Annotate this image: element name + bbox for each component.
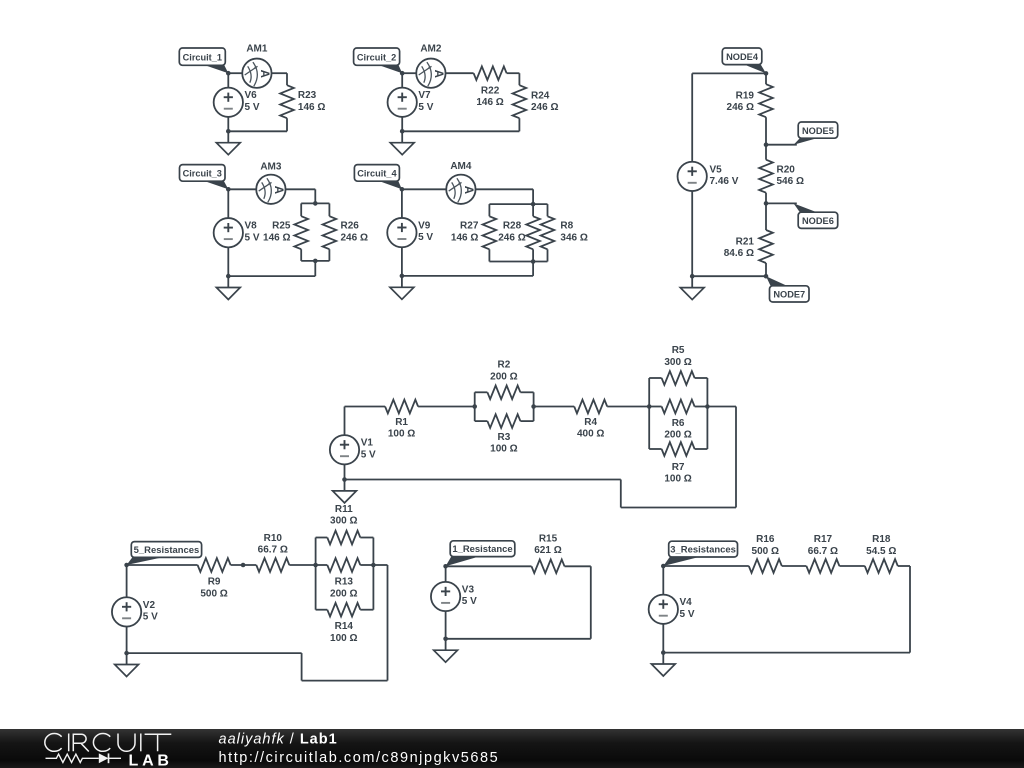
node NODE4 [764, 71, 769, 76]
wire node to R9 [127, 564, 198, 566]
svg-text:621 Ω: 621 Ω [534, 545, 561, 556]
node Circuit_1 [226, 71, 231, 76]
svg-text:346 Ω: 346 Ω [560, 232, 587, 243]
svg-text:V4: V4 [680, 597, 693, 608]
junction V4 bottom [661, 650, 666, 655]
wire R9 to R10 [231, 564, 257, 566]
wire V8 - down [227, 247, 229, 276]
svg-text:500 Ω: 500 Ω [752, 546, 779, 557]
svg-text:R18: R18 [872, 534, 891, 545]
svg-text:3_Resistances: 3_Resistances [670, 544, 736, 555]
wire pair right side [533, 392, 535, 421]
svg-text:Circuit_2: Circuit_2 [357, 52, 396, 62]
svg-text:R24: R24 [531, 90, 550, 101]
node Circuit_2 [400, 71, 405, 76]
junction bottom [226, 129, 231, 134]
resistor R19 [759, 84, 773, 117]
wire node Circuit_4 to AM4 [402, 188, 446, 190]
svg-text:5 V: 5 V [418, 232, 433, 243]
resistor R27 [483, 216, 497, 249]
wire to R28 [532, 204, 534, 216]
wire R26 bottom [328, 249, 330, 261]
svg-text:R9: R9 [208, 577, 221, 588]
resistor R21 [759, 230, 773, 263]
resistor R9 [198, 558, 231, 572]
wire down to parallel trio [532, 189, 534, 204]
ground [216, 276, 240, 299]
junction trio left [313, 563, 318, 568]
svg-text:R10: R10 [264, 533, 283, 544]
svg-text:500 Ω: 500 Ω [200, 588, 227, 599]
wire bottom return [402, 130, 519, 132]
wire bottom return [228, 130, 287, 132]
wire node to V8 + [227, 189, 229, 218]
wire V1 top to R1 [345, 406, 386, 408]
wire bottom jog [302, 680, 388, 682]
voltage source V6 [214, 88, 243, 117]
wire V3 - down [445, 611, 447, 639]
svg-text:246 Ω: 246 Ω [341, 232, 368, 243]
logo letter C [45, 734, 62, 752]
svg-text:300 Ω: 300 Ω [664, 357, 691, 368]
svg-text:200 Ω: 200 Ω [330, 588, 357, 599]
svg-text:100 Ω: 100 Ω [330, 633, 357, 644]
flag NODE4 [722, 48, 766, 73]
wire down to R24 [518, 73, 520, 85]
flag 3_Resistances [663, 541, 737, 566]
svg-text:R11: R11 [335, 504, 353, 515]
node 3_Resistances [661, 564, 666, 569]
resistor R6 [662, 400, 695, 414]
node 5_Resistances [124, 563, 129, 568]
svg-text:R25: R25 [272, 221, 291, 232]
wire to R26 [328, 203, 330, 216]
wire to R25 [300, 203, 302, 216]
wire R3 right [520, 420, 533, 422]
wire node to V6 + [227, 73, 229, 88]
wire V4 - down [662, 624, 664, 653]
svg-text:R16: R16 [756, 534, 775, 545]
flag 5_Resistances [127, 542, 202, 565]
wire node to V3 + [445, 566, 447, 582]
voltage source V2 [112, 597, 141, 626]
wire node Circuit_2 to AM2 [402, 72, 416, 74]
wire R2 right [520, 391, 533, 393]
wire R16 to R17 [782, 565, 807, 567]
wire to R7 [649, 448, 661, 450]
resistor R26 [323, 216, 337, 249]
junction V3 bottom [443, 637, 448, 642]
wire bottom return [446, 638, 591, 640]
flag NODE6 [766, 203, 838, 228]
wire to V1 + [344, 407, 346, 436]
svg-text:246 Ω: 246 Ω [498, 232, 525, 243]
ground [680, 276, 704, 299]
svg-text:V7: V7 [418, 90, 431, 101]
wire bottom return to V1 [345, 479, 621, 481]
svg-text:NODE5: NODE5 [802, 126, 834, 136]
wire left to V5 + [691, 73, 693, 161]
resistor R5 [662, 371, 695, 385]
junction R9-R10 [241, 563, 246, 568]
svg-text:R20: R20 [777, 164, 796, 175]
wire R28 bottom [532, 249, 534, 261]
wire right down [590, 566, 592, 639]
junction parallel bottom [531, 259, 536, 264]
wire V2 - down [126, 627, 128, 654]
junction bottom [400, 274, 405, 279]
wire AM2 to R22 [446, 72, 474, 74]
svg-text:100 Ω: 100 Ω [388, 429, 415, 440]
svg-text:5 V: 5 V [245, 232, 260, 243]
svg-text:5 V: 5 V [143, 612, 158, 623]
wire AM1 to R23 [272, 72, 287, 74]
svg-text:V5: V5 [710, 164, 723, 175]
svg-text:5 V: 5 V [680, 609, 695, 620]
svg-text:5 V: 5 V [245, 102, 260, 113]
junction V2 bottom [124, 651, 129, 656]
wire V9 - down [401, 247, 403, 276]
resistor R24 [513, 85, 527, 118]
svg-text:246 Ω: 246 Ω [531, 102, 558, 113]
wire node to V2 + [126, 565, 128, 597]
logo letter C [93, 734, 110, 752]
svg-text:100 Ω: 100 Ω [490, 444, 517, 455]
wire NODE6 to R21 [765, 203, 767, 230]
flag NODE5 [766, 122, 838, 145]
svg-text:66.7 Ω: 66.7 Ω [808, 546, 838, 557]
wire bottom return [228, 275, 315, 277]
svg-text:AM1: AM1 [246, 43, 268, 54]
svg-text:R3: R3 [498, 432, 511, 443]
junction trio right [705, 404, 710, 409]
svg-text:V3: V3 [462, 584, 475, 595]
wire parallel bottom [301, 260, 329, 262]
svg-text:146 Ω: 146 Ω [298, 102, 325, 113]
resistor R1 [385, 400, 418, 414]
node 1_Resistance [443, 564, 448, 569]
resistor R20 [759, 160, 773, 193]
voltage source V9 [387, 218, 416, 247]
flag Circuit_3 [180, 165, 229, 190]
wire trio right side [372, 538, 374, 610]
ammeter AM3 [256, 175, 285, 204]
wire top NODE4 [692, 72, 766, 74]
svg-text:R22: R22 [481, 86, 500, 97]
wire trio to corner [373, 564, 387, 566]
voltage source V3 [431, 582, 460, 611]
svg-text:AM2: AM2 [420, 43, 442, 54]
wire node Circuit_1 to AM1 [228, 72, 242, 74]
flag NODE7 [766, 276, 809, 302]
wire AM3 right [286, 188, 316, 190]
svg-text:V6: V6 [245, 90, 258, 101]
wire R20 to NODE6 [765, 193, 767, 204]
svg-text:300 Ω: 300 Ω [330, 516, 357, 527]
svg-text:400 Ω: 400 Ω [577, 429, 604, 440]
flag Circuit_4 [354, 165, 402, 190]
resistor R10 [256, 558, 289, 572]
flag Circuit_1 [179, 48, 228, 73]
svg-text:5 V: 5 V [462, 596, 477, 607]
svg-text:A: A [272, 186, 284, 194]
wire R19 to NODE5 [765, 117, 767, 145]
wire V1 - down [344, 465, 346, 480]
ammeter AM1 [242, 59, 271, 88]
resistor R22 [474, 66, 507, 80]
wire to R8 [547, 204, 549, 216]
wire to R2 [475, 391, 488, 393]
wire node to V4 + [662, 566, 664, 595]
wire trio to corner [707, 406, 736, 408]
wire R27 bottom [488, 249, 490, 261]
logo letter I [68, 734, 70, 752]
wire parallel bottom [489, 261, 547, 263]
svg-text:Circuit_1: Circuit_1 [183, 52, 222, 62]
wire bottom jog [621, 507, 736, 509]
svg-text:R4: R4 [584, 417, 597, 428]
wire bottom NODE7 [692, 275, 766, 277]
svg-text:R2: R2 [498, 360, 511, 371]
wire AM4 right [476, 188, 533, 190]
voltage source V5 [678, 162, 707, 191]
ammeter AM2 [416, 59, 445, 88]
wire to R13 [316, 564, 328, 566]
wire R1 to pair [418, 406, 475, 408]
resistor R15 [532, 560, 565, 574]
svg-text:R8: R8 [560, 221, 573, 232]
svg-text:54.5 Ω: 54.5 Ω [866, 546, 896, 557]
wire node Circuit_3 to AM3 [228, 188, 256, 190]
wire to R5 [649, 377, 661, 379]
svg-text:5 V: 5 V [418, 102, 433, 113]
logo diode [99, 753, 109, 763]
wire node to R16 [663, 565, 749, 567]
junction V1 bottom [342, 477, 347, 482]
voltage source V8 [214, 218, 243, 247]
wire right down [387, 565, 389, 681]
logo letter R [73, 734, 89, 751]
svg-text:http://circuitlab.com/c89njpgk: http://circuitlab.com/c89njpgkv5685 [219, 750, 500, 766]
logo letter U [118, 734, 135, 752]
junction bottom [400, 129, 405, 134]
wire to R14 [316, 609, 328, 611]
wire parallel top [489, 203, 547, 205]
flag 1_Resistance [446, 541, 515, 567]
wire right down [735, 407, 737, 508]
resistor R7 [662, 442, 695, 456]
wire R13 right [360, 564, 373, 566]
svg-text:146 Ω: 146 Ω [451, 232, 478, 243]
junction trio left [647, 404, 652, 409]
node NODE5 [764, 142, 769, 147]
wire down to parallel pair [314, 189, 316, 203]
junction V5 bottom [690, 274, 695, 279]
svg-text:V9: V9 [418, 221, 431, 232]
wire trio left side [648, 378, 650, 449]
svg-text:R23: R23 [298, 90, 317, 101]
svg-text:aaliyahfk / Lab1: aaliyahfk / Lab1 [219, 732, 338, 748]
resistor R2 [487, 385, 520, 399]
wire R15 to corner [565, 565, 591, 567]
wire trio to bottom [532, 262, 534, 276]
voltage source V7 [388, 88, 417, 117]
svg-text:R17: R17 [814, 534, 833, 545]
ground [390, 131, 414, 154]
wire to R3 [475, 420, 488, 422]
wire pair left side [474, 392, 476, 421]
logo letter T [145, 734, 172, 751]
wire node to V7 + [401, 73, 403, 88]
svg-text:246 Ω: 246 Ω [727, 102, 754, 113]
wire to R11 [316, 537, 328, 539]
svg-text:A: A [432, 70, 444, 78]
wire bottom return to V2 [127, 652, 302, 654]
svg-text:A: A [258, 70, 270, 78]
resistor R17 [806, 559, 839, 573]
wire parallel top [301, 202, 329, 204]
svg-text:84.6 Ω: 84.6 Ω [724, 248, 754, 259]
flag Circuit_2 [354, 48, 403, 73]
voltage source V1 [330, 435, 359, 464]
ground [390, 276, 414, 299]
logo resistor zigzag [46, 754, 99, 762]
wire node to V9 + [401, 189, 403, 218]
resistor R23 [280, 85, 294, 118]
svg-text:NODE7: NODE7 [773, 290, 805, 300]
svg-text:Circuit_4: Circuit_4 [357, 169, 397, 179]
node NODE6 [764, 201, 769, 206]
wire V7 - to ground node [401, 117, 403, 131]
svg-text:NODE4: NODE4 [726, 52, 759, 62]
ground [216, 131, 240, 154]
wire pair to bottom [314, 261, 316, 276]
node Circuit_4 [400, 187, 405, 192]
svg-text:200 Ω: 200 Ω [664, 430, 691, 441]
junction parallel top [313, 201, 318, 206]
wire V5 - down [691, 191, 693, 276]
wire R6 right [695, 406, 708, 408]
svg-text:A: A [462, 186, 474, 194]
footer bar [0, 729, 1024, 768]
svg-text:R27: R27 [460, 221, 479, 232]
wire R14 right [360, 609, 373, 611]
svg-text:7.46 V: 7.46 V [710, 176, 739, 187]
wire R4 to trio [607, 406, 649, 408]
wire V6 - to ground node [227, 117, 229, 131]
svg-text:66.7 Ω: 66.7 Ω [258, 545, 288, 556]
wire NODE5 to R20 [765, 145, 767, 160]
svg-text:146 Ω: 146 Ω [476, 97, 503, 108]
resistor R28 [526, 216, 540, 249]
wire R10 to trio [289, 564, 315, 566]
wire trio right side [706, 378, 708, 449]
wire R11 right [360, 537, 373, 539]
svg-text:R28: R28 [503, 221, 522, 232]
resistor R13 [327, 558, 360, 572]
wire node to R15 [446, 565, 532, 567]
ground [115, 653, 139, 676]
junction parallel top [531, 202, 536, 207]
wire R22 to corner [507, 72, 520, 74]
ground [651, 653, 675, 676]
svg-text:R5: R5 [672, 345, 685, 356]
wire trio left side [315, 538, 317, 610]
ground [434, 639, 458, 662]
svg-text:NODE6: NODE6 [802, 216, 834, 226]
voltage source V4 [649, 595, 678, 624]
wire jog up [301, 653, 303, 681]
junction bottom [226, 274, 231, 279]
node NODE7 [764, 274, 769, 279]
wire bottom return [402, 275, 533, 277]
wire R23 to bottom [286, 118, 288, 131]
wire R5 right [695, 377, 708, 379]
svg-text:R14: R14 [335, 621, 354, 632]
resistor R4 [574, 400, 607, 414]
resistor R18 [865, 559, 898, 573]
svg-text:R21: R21 [736, 237, 755, 248]
wire to R6 [649, 406, 661, 408]
svg-text:5_Resistances: 5_Resistances [134, 545, 200, 556]
wire R8 bottom [547, 249, 549, 261]
svg-text:R1: R1 [395, 417, 408, 428]
wire R17 to R18 [839, 565, 864, 567]
svg-text:R26: R26 [341, 221, 360, 232]
svg-text:V1: V1 [361, 438, 374, 449]
wire jog up [620, 480, 622, 508]
wire right down [909, 566, 911, 653]
svg-text:100 Ω: 100 Ω [664, 474, 691, 485]
ground [333, 480, 357, 503]
wire R25 bottom [300, 249, 302, 261]
resistor R11 [327, 531, 360, 545]
svg-text:200 Ω: 200 Ω [490, 371, 517, 382]
resistor R8 [541, 216, 555, 249]
wire R21 to NODE7 [765, 263, 767, 276]
wire R24 to bottom [518, 118, 520, 131]
ammeter AM4 [446, 175, 475, 204]
svg-text:5 V: 5 V [361, 449, 376, 460]
svg-text:R13: R13 [335, 577, 354, 588]
svg-text:Circuit_3: Circuit_3 [183, 169, 222, 179]
wire pair to R4 [534, 406, 575, 408]
wire R7 right [695, 448, 708, 450]
node Circuit_3 [226, 187, 231, 192]
svg-text:AM4: AM4 [450, 161, 472, 172]
resistor R16 [749, 559, 782, 573]
wire NODE4 to R19 [765, 73, 767, 84]
junction pair left [472, 404, 477, 409]
wire bottom return [663, 652, 910, 654]
svg-text:V2: V2 [143, 600, 156, 611]
svg-text:R15: R15 [539, 533, 558, 544]
logo letter I [140, 734, 142, 752]
resistor R25 [294, 216, 308, 249]
svg-text:LAB: LAB [129, 752, 173, 768]
junction trio right [371, 563, 376, 568]
svg-text:546 Ω: 546 Ω [777, 176, 804, 187]
svg-text:1_Resistance: 1_Resistance [452, 544, 512, 555]
junction pair right [531, 404, 536, 409]
svg-text:AM3: AM3 [260, 162, 282, 173]
svg-text:R6: R6 [672, 418, 685, 429]
svg-text:R7: R7 [672, 462, 685, 473]
resistor R3 [487, 414, 520, 428]
wire to R27 [488, 204, 490, 216]
wire R18 to corner [898, 565, 910, 567]
resistor R14 [327, 603, 360, 617]
